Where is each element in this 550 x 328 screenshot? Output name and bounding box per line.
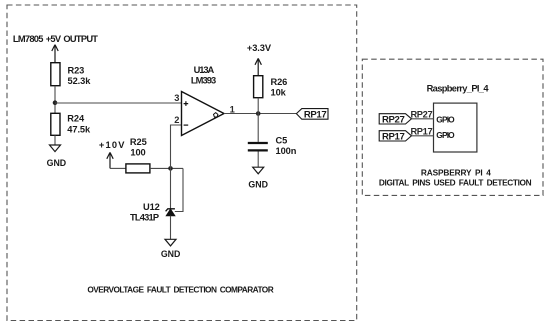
wire R26 to output node — [257, 98, 259, 114]
power flag +3.3V — [255, 58, 261, 75]
svg-text:GPIO: GPIO — [436, 114, 455, 124]
svg-text:RP27: RP27 — [410, 110, 432, 120]
capacitor C5 — [248, 143, 268, 150]
op-amp - input marker — [184, 124, 189, 126]
node junction output — [256, 111, 261, 116]
sheet border: overvoltage comparator block — [7, 5, 357, 321]
svg-text:R23: R23 — [68, 66, 85, 76]
svg-text:R25: R25 — [130, 137, 147, 147]
wire output node to C5 — [257, 114, 259, 142]
wire RP17 tag to GPIO pin — [412, 135, 434, 137]
wire op-amp output to RP17 — [224, 113, 296, 115]
wire +10V to R25 — [110, 167, 126, 169]
svg-text:10k: 10k — [271, 88, 287, 98]
svg-text:52.3k: 52.3k — [68, 76, 92, 86]
resistor R25 — [126, 164, 150, 173]
node junction R25/U12/pin2 — [168, 166, 173, 171]
svg-text:+10V: +10V — [99, 140, 125, 150]
svg-text:LM7805 +5V OUTPUT: LM7805 +5V OUTPUT — [13, 34, 98, 44]
svg-text:RASPBERRY PI 4: RASPBERRY PI 4 — [421, 167, 491, 177]
svg-text:Raspberry_PI_4: Raspberry_PI_4 — [427, 84, 490, 94]
wire C5 to ground — [257, 152, 259, 168]
svg-text:DIGITAL PINS USED FAULT DETECT: DIGITAL PINS USED FAULT DETECTION — [379, 178, 532, 188]
svg-text:RP17: RP17 — [382, 132, 404, 143]
wire R24 to ground — [54, 135, 56, 145]
ground (R24) — [50, 145, 61, 152]
svg-text:2: 2 — [174, 115, 179, 125]
op-amp + input marker — [184, 101, 189, 106]
ground (C5) — [253, 167, 264, 174]
resistor R26 — [254, 76, 263, 98]
svg-text:C5: C5 — [276, 136, 288, 146]
wire node down to U12 cathode — [170, 168, 172, 208]
wire reference loop to U12 ref pin — [175, 168, 183, 211]
shunt reference U12 TL431P — [166, 209, 175, 212]
net tag RP17 (comparator output) — [296, 109, 328, 120]
svg-text:R26: R26 — [271, 77, 288, 87]
svg-text:47.5k: 47.5k — [67, 124, 91, 134]
sheet border: raspberry pi block — [362, 59, 543, 195]
wire R23 to R24 — [54, 86, 56, 114]
svg-text:GPIO: GPIO — [436, 130, 455, 140]
svg-text:U12: U12 — [143, 202, 160, 212]
wire RP27 tag to GPIO pin — [412, 118, 434, 120]
op-amp U13A LM393 — [182, 92, 225, 136]
svg-text:GND: GND — [161, 249, 181, 259]
svg-text:RP27: RP27 — [382, 115, 404, 126]
svg-text:TL431P: TL431P — [130, 213, 159, 223]
net tag RP27 (to pi) — [379, 114, 411, 124]
svg-text:RP17: RP17 — [410, 127, 432, 137]
svg-text:GND: GND — [47, 158, 67, 168]
svg-text:+3.3V: +3.3V — [247, 43, 272, 53]
component body GPIO box — [434, 103, 477, 152]
resistor R23 — [51, 63, 60, 86]
svg-text:3: 3 — [174, 93, 179, 103]
svg-text:U13A: U13A — [194, 65, 215, 75]
svg-text:LM393: LM393 — [191, 76, 216, 86]
wire node up to op-amp pin 2 — [171, 125, 182, 168]
wire R25 to node — [150, 167, 183, 169]
svg-text:OVERVOLTAGE FAULT DETECTION CO: OVERVOLTAGE FAULT DETECTION COMPARATOR — [87, 285, 273, 295]
power flag +10V — [107, 152, 113, 168]
svg-text:100n: 100n — [276, 146, 297, 156]
wire U12 anode to ground — [170, 216, 172, 240]
net tag RP17 (to pi) — [379, 131, 411, 141]
power flag LM7805 +5V OUTPUT — [52, 45, 58, 63]
svg-text:RP17: RP17 — [304, 109, 326, 120]
ground (U12) — [165, 239, 176, 246]
svg-text:R24: R24 — [67, 114, 85, 124]
node junction divider — [53, 100, 58, 105]
open collector marker — [214, 113, 218, 117]
wire divider to op-amp pin 3 — [55, 102, 182, 104]
resistor R24 — [51, 113, 60, 135]
svg-text:GND: GND — [248, 180, 268, 190]
svg-text:100: 100 — [130, 148, 145, 158]
